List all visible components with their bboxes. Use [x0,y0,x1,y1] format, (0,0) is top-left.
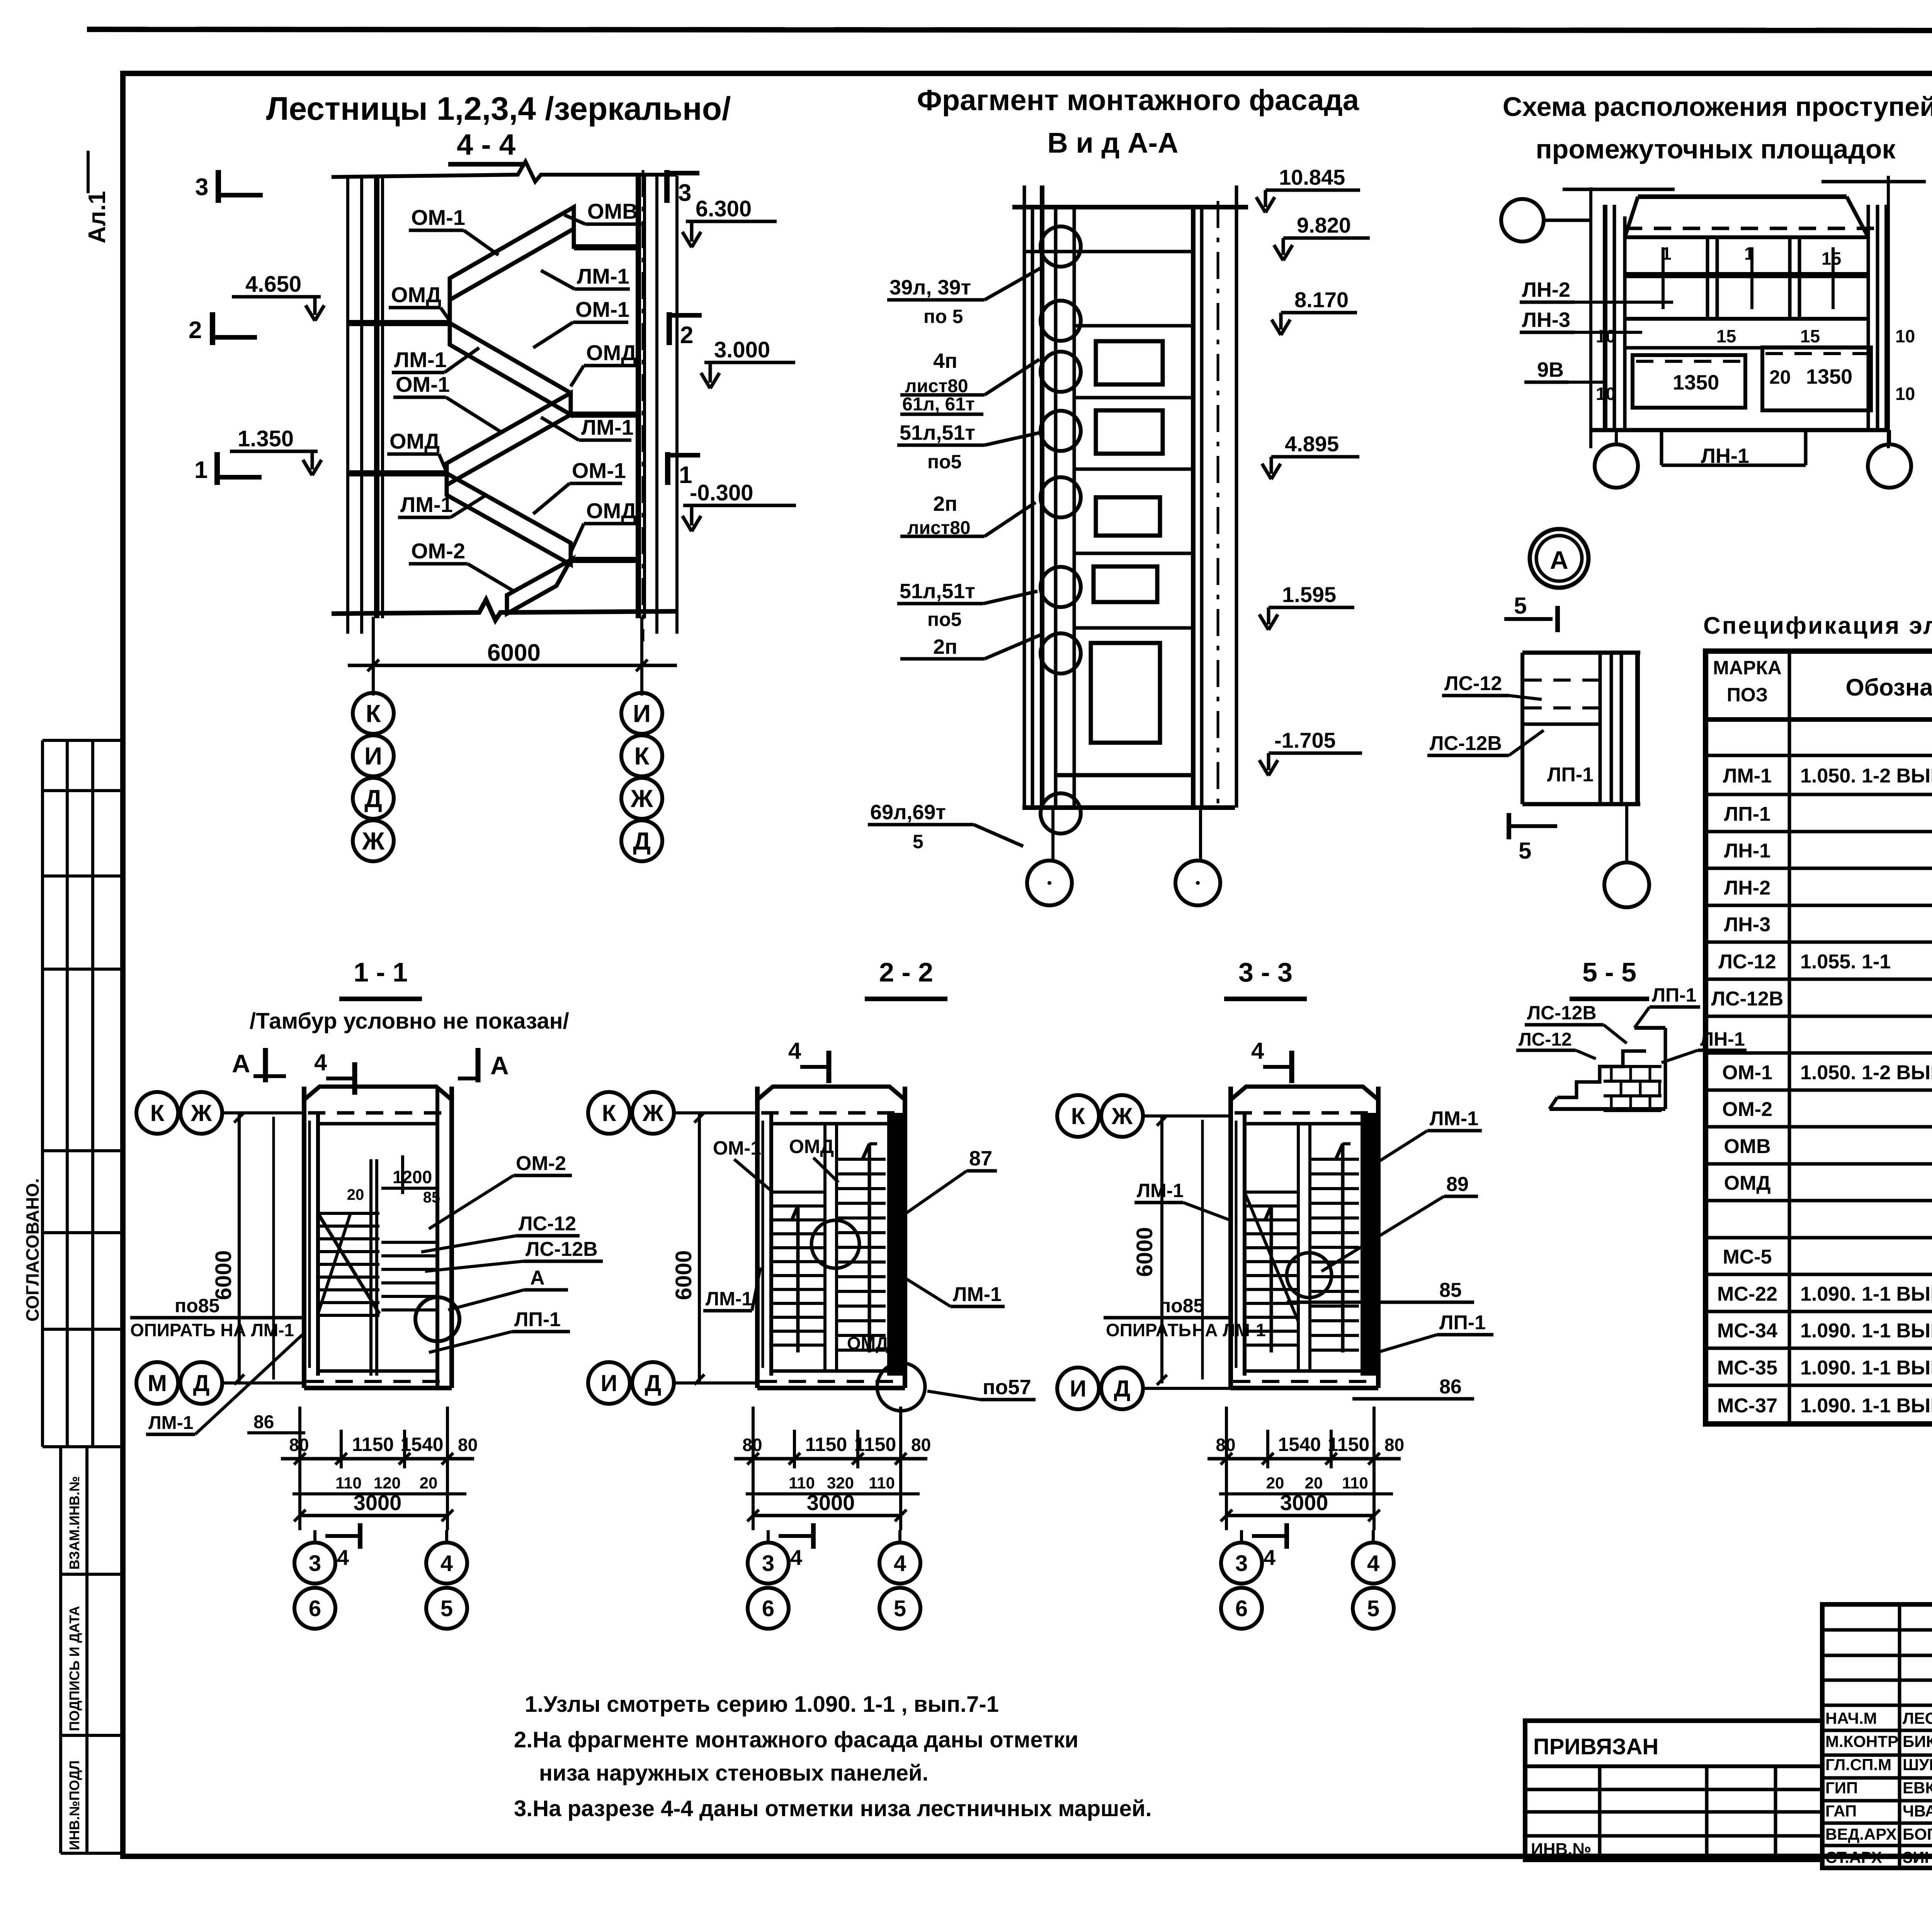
svg-text:20: 20 [1769,366,1791,388]
svg-text:ЛМ-1: ЛМ-1 [953,1283,1002,1306]
svg-text:3 - 3: 3 - 3 [1238,957,1293,987]
landing left C [348,470,447,476]
scheme grid top row [1625,235,1868,239]
svg-text:К: К [366,699,381,727]
svg-text:1150: 1150 [352,1434,394,1455]
svg-text:3.На разрезе 4-4 даны отметк: 3.На разрезе 4-4 даны отметки низа лестн… [514,1796,1152,1821]
svg-text:ШУРМУХИНА: ШУРМУХИНА [1903,1755,1932,1774]
svg-text:5: 5 [913,831,923,852]
svg-text:ЕВКО: ЕВКО [1903,1779,1932,1797]
svg-text:ИНВ.№ПОДЛ: ИНВ.№ПОДЛ [66,1761,82,1850]
svg-text:лист80: лист80 [907,518,971,538]
svg-text:Ж: Ж [190,1100,212,1126]
svg-text:Д: Д [364,784,382,812]
svg-text:ЛС-12В: ЛС-12В [1527,1002,1597,1024]
svg-text:110: 110 [869,1474,895,1492]
scheme axis dim verticals [1589,187,1592,448]
svg-text:Фрагмент монтажного фасада: Фрагмент монтажного фасада [917,84,1359,117]
svg-text:промежуточных площадок: промежуточных площадок [1536,134,1896,164]
svg-text:89: 89 [1446,1173,1469,1196]
plan walls [755,1087,760,1388]
svg-text:М.КОНТР: М.КОНТР [1825,1732,1898,1750]
svg-text:10: 10 [1596,326,1616,346]
svg-text:1.595: 1.595 [1282,582,1336,607]
cut mark 1 right [665,452,670,485]
svg-text:по5: по5 [927,609,962,630]
svg-text:МС-34: МС-34 [1717,1320,1777,1342]
top trim line [87,29,1932,31]
svg-text:3: 3 [1235,1551,1248,1576]
svg-text:110: 110 [335,1474,362,1492]
svg-text:4 - 4: 4 - 4 [457,128,515,161]
svg-text:СТ.АРХ: СТ.АРХ [1825,1848,1882,1866]
svg-text:ВЗАМ.ИНВ.№: ВЗАМ.ИНВ.№ [66,1476,82,1570]
plan stair content [771,1191,825,1194]
svg-text:1.090. 1-1 ВЫП.8-1: 1.090. 1-1 ВЫП.8-1 [1800,1283,1932,1305]
section axis bubbles bottom [313,1530,316,1543]
svg-text:85: 85 [423,1189,440,1206]
svg-text:ОМ-1: ОМ-1 [713,1137,761,1159]
svg-text:-0.300: -0.300 [690,480,753,505]
svg-text:80: 80 [289,1435,309,1455]
plan top slab [757,1087,905,1100]
svg-text:4: 4 [1251,1038,1264,1064]
svg-text:8.170: 8.170 [1294,287,1349,312]
cut mark 2 right [667,312,672,345]
svg-text:ОМД: ОМД [1724,1172,1771,1194]
svg-text:5: 5 [1514,593,1527,619]
facade hanging axis circles [1051,808,1054,862]
svg-text:2: 2 [680,322,693,349]
svg-text:9.820: 9.820 [1297,213,1351,237]
svg-text:ЛМ-1: ЛМ-1 [148,1413,193,1433]
svg-text:2.На фрагменте монтажного фас: 2.На фрагменте монтажного фасада даны от… [514,1727,1078,1752]
svg-text:ЛН-2: ЛН-2 [1724,877,1770,899]
svg-text:1.050. 1-2 ВЫП.1: 1.050. 1-2 ВЫП.1 [1800,765,1932,787]
svg-text:80: 80 [742,1435,762,1455]
svg-text:Лестницы 1,2,3,4 /зеркально/: Лестницы 1,2,3,4 /зеркально/ [266,90,731,127]
section 2-2 bottom-right node circle [877,1363,925,1411]
section 4-4 left wall [346,176,349,634]
table column lines [1788,651,1791,1424]
section 1-1 vertical dim 6000 [238,1113,241,1383]
detail 5-5 steps [1557,1051,1646,1097]
svg-text:ЛП-1: ЛП-1 [1724,803,1770,825]
svg-text:по57: по57 [983,1376,1031,1399]
svg-text:86: 86 [1439,1376,1462,1398]
svg-text:1: 1 [1662,243,1672,264]
axis bubbles 4-4 right [621,693,662,734]
svg-text:И: И [633,699,651,727]
facade circles column [1041,226,1081,267]
svg-text:1150: 1150 [854,1434,896,1455]
svg-text:320: 320 [827,1474,854,1492]
svg-text:ОМД: ОМД [391,282,441,307]
svg-text:ЛН-2: ЛН-2 [1522,278,1570,301]
svg-text:3000: 3000 [807,1490,855,1515]
detail hanging axis circle [1625,804,1628,862]
svg-text:ЛС-12: ЛС-12 [1718,951,1776,973]
svg-text:1200: 1200 [393,1167,432,1187]
svg-text:А: А [530,1267,545,1289]
flight fourth [447,473,571,565]
svg-text:Ж: Ж [642,1100,664,1126]
facade windows [1096,341,1163,384]
svg-text:4.895: 4.895 [1285,432,1339,456]
svg-text:ЛН-3: ЛН-3 [1522,308,1570,332]
svg-text:3000: 3000 [1280,1490,1328,1515]
svg-text:Д: Д [645,1370,662,1396]
svg-text:1: 1 [194,457,207,483]
svg-text:2 - 2: 2 - 2 [879,957,933,987]
svg-text:ЛП-1: ЛП-1 [514,1308,561,1331]
plan bottom slab [1231,1386,1378,1390]
table row lines [1706,754,1932,757]
svg-text:ОМД: ОМД [586,498,636,523]
svg-text:5: 5 [1367,1596,1379,1621]
flight third [447,393,571,485]
left stamp column grid upper [41,740,44,1447]
svg-text:10.845: 10.845 [1279,165,1345,189]
svg-text:-1.705: -1.705 [1274,728,1336,752]
svg-text:по5: по5 [927,451,962,473]
svg-text:ПРИВЯЗАН: ПРИВЯЗАН [1533,1734,1658,1759]
svg-text:20: 20 [347,1186,364,1203]
svg-text:4п: 4п [933,349,957,373]
svg-text:ЛС-12В: ЛС-12В [526,1238,598,1260]
detail plan LP-1 [1520,653,1524,804]
svg-text:87: 87 [969,1147,992,1170]
svg-text:1150: 1150 [805,1434,847,1455]
svg-text:ОМД: ОМД [586,340,636,365]
svg-text:1.Узлы смотреть серию 1.090: 1.Узлы смотреть серию 1.090. 1-1 , вып.7… [525,1692,999,1717]
svg-text:низа наружных стеновых пане: низа наружных стеновых панелей. [539,1761,929,1786]
svg-text:Ж: Ж [1111,1103,1133,1129]
svg-text:ГАП: ГАП [1825,1802,1857,1820]
svg-text:4: 4 [440,1551,453,1576]
flight OM-1 top [450,207,574,300]
svg-text:80: 80 [458,1435,478,1455]
svg-text:ПОДПИСЬ И ДАТА: ПОДПИСЬ И ДАТА [66,1606,82,1731]
svg-text:9В: 9В [1537,358,1564,381]
svg-text:10: 10 [1596,384,1616,404]
svg-text:ЛС-12: ЛС-12 [1444,672,1502,695]
facade bottom edge [1022,805,1235,810]
svg-text:4: 4 [788,1038,801,1064]
svg-text:В и д А-А: В и д А-А [1047,127,1178,159]
facade left band [1023,185,1026,808]
svg-text:ЛС-12В: ЛС-12В [1430,732,1502,755]
svg-text:ПОЗ: ПОЗ [1727,684,1768,706]
svg-text:А: А [1550,546,1568,574]
landing right D [571,557,638,563]
svg-text:6.300: 6.300 [696,196,752,221]
svg-text:ЛМ-1: ЛМ-1 [577,264,629,288]
section axis bubbles bottom [767,1530,770,1543]
svg-text:20: 20 [1266,1474,1284,1492]
svg-text:Ал.1: Ал.1 [84,191,111,243]
svg-text:ЛП-1: ЛП-1 [1652,984,1696,1006]
landing OMB top right [574,244,638,250]
svg-text:ОМД: ОМД [789,1136,834,1157]
svg-text:ЛН-1: ЛН-1 [1700,1028,1745,1050]
svg-text:Д: Д [633,827,651,855]
svg-text:4: 4 [790,1545,802,1570]
svg-text:К: К [602,1100,616,1126]
svg-text:лист80: лист80 [905,376,968,396]
svg-text:80: 80 [1384,1435,1404,1455]
svg-text:МС-5: МС-5 [1723,1246,1772,1268]
svg-text:69л,69т: 69л,69т [870,801,946,824]
svg-text:ЛЕОНОВ: ЛЕОНОВ [1903,1709,1932,1727]
svg-text:Д: Д [1114,1376,1131,1402]
svg-text:по85: по85 [1159,1295,1204,1317]
svg-text:ОМ-1: ОМ-1 [1722,1061,1772,1084]
svg-text:1.090. 1-1 ВЫП.7-1: 1.090. 1-1 ВЫП.7-1 [1800,1320,1932,1342]
scheme 1 axis circle left [1501,199,1544,242]
svg-text:10: 10 [1895,326,1915,346]
scheme 1 bottom axis circles [1615,430,1618,444]
scheme walls [1603,205,1607,430]
section 3-3 vertical dim 6000 [1160,1116,1163,1383]
detail 5 mark bottom [1509,824,1557,828]
section dims below plan [298,1407,301,1530]
svg-text:ЛМ-1: ЛМ-1 [394,347,447,372]
plan top slab [304,1087,452,1100]
svg-text:6: 6 [1235,1596,1248,1621]
facade floor lines [1074,250,1193,253]
svg-text:по 5: по 5 [923,306,963,327]
svg-text:85: 85 [1439,1279,1462,1301]
svg-text:ЛМ-1: ЛМ-1 [706,1288,752,1310]
landing right B [571,412,638,418]
svg-text:ОМ-2: ОМ-2 [411,539,465,563]
svg-text:20: 20 [420,1474,438,1492]
svg-text:МС-22: МС-22 [1717,1283,1777,1305]
cut mark 3 right [664,170,670,203]
svg-text:3: 3 [309,1551,321,1576]
scheme top band [1638,194,1847,199]
svg-text:МАРКА: МАРКА [1713,657,1782,679]
svg-text:/Тамбур условно не показан/: /Тамбур условно не показан/ [250,1009,569,1034]
svg-text:ОПИРАТЬ: ОПИРАТЬ [1106,1320,1191,1340]
svg-text:ЛС-12: ЛС-12 [1519,1029,1572,1050]
svg-text:ЛС-12: ЛС-12 [519,1213,576,1235]
svg-text:4: 4 [337,1545,349,1570]
svg-text:4: 4 [1367,1551,1379,1576]
svg-text:ЛН-1: ЛН-1 [1701,444,1749,468]
scheme bottom bracket LN-1 [1660,430,1663,465]
svg-text:ОМД: ОМД [389,429,440,453]
svg-text:1540: 1540 [400,1434,443,1455]
section dims below plan [752,1407,755,1530]
svg-text:ЧВАЛУН: ЧВАЛУН [1903,1802,1932,1820]
svg-text:3: 3 [195,174,208,201]
svg-text:ОМ-1: ОМ-1 [572,458,626,483]
plan walls [1228,1087,1233,1388]
svg-text:15: 15 [1716,326,1736,346]
scheme bottom line [1591,428,1888,432]
svg-text:БОГДАНОВА: БОГДАНОВА [1903,1825,1932,1843]
svg-text:6000: 6000 [1132,1227,1157,1277]
svg-text:61л, 61т: 61л, 61т [902,394,975,415]
svg-text:ЛМ-1: ЛМ-1 [400,492,453,517]
svg-text:4: 4 [894,1551,906,1576]
svg-text:110: 110 [1342,1474,1368,1492]
facade top edge [1012,205,1248,209]
svg-text:Схема расположения проступей: Схема расположения проступей [1503,92,1932,122]
svg-text:НАЧ.М: НАЧ.М [1825,1709,1877,1727]
svg-text:ИНВ.№: ИНВ.№ [1531,1840,1591,1859]
svg-text:1150: 1150 [1328,1434,1369,1455]
svg-text:1.090. 1-1 ВЫП.7-1: 1.090. 1-1 ВЫП.7-1 [1800,1395,1932,1417]
plan walls [302,1087,306,1388]
svg-text:ЛМ-1: ЛМ-1 [1723,765,1772,787]
svg-text:15: 15 [1800,326,1820,346]
landing left A [348,320,450,326]
svg-text:ГЛ.СП.М: ГЛ.СП.М [1825,1755,1891,1774]
svg-text:ЛН-3: ЛН-3 [1724,913,1770,936]
svg-text:И: И [600,1370,617,1396]
svg-text:ВЕД.АРХ: ВЕД.АРХ [1825,1825,1897,1843]
svg-text:3.000: 3.000 [714,337,770,362]
svg-text:6: 6 [762,1596,774,1621]
svg-text:6: 6 [309,1596,321,1621]
svg-text:ОПИРАТЬ НА ЛМ-1: ОПИРАТЬ НА ЛМ-1 [130,1320,294,1340]
privyazan box [1525,1721,1822,1860]
svg-text:1.350: 1.350 [238,426,294,451]
svg-text:МС-35: МС-35 [1717,1357,1777,1379]
svg-text:5: 5 [894,1596,906,1621]
svg-text:К: К [634,742,650,770]
left stamp column lower [59,1447,62,1853]
svg-text:6000: 6000 [671,1250,696,1300]
plan bottom slab [757,1386,905,1390]
svg-text:ОМВ: ОМВ [1724,1135,1770,1158]
svg-text:МС-37: МС-37 [1717,1395,1777,1417]
svg-text:5: 5 [1519,838,1531,864]
svg-text:3: 3 [678,180,691,206]
section axis bubbles bottom [1240,1530,1243,1543]
svg-text:ЛМ-1: ЛМ-1 [1430,1107,1478,1130]
section cut mark 4 bottom [779,1534,813,1538]
svg-text:ОМД: ОМД [847,1333,888,1353]
svg-text:1350: 1350 [1806,365,1852,388]
svg-text:ОМ-2: ОМ-2 [516,1152,566,1175]
svg-text:51л,51т: 51л,51т [900,421,975,444]
svg-text:3000: 3000 [354,1490,402,1515]
plan stair content [1245,1191,1298,1194]
svg-text:СОГЛАСОВАНО.: СОГЛАСОВАНО. [22,1178,43,1322]
svg-text:1540: 1540 [1278,1434,1321,1455]
svg-text:ОМ-2: ОМ-2 [1722,1098,1772,1121]
svg-text:4: 4 [1264,1545,1276,1570]
detail 5-5 brick hatch [1604,1065,1662,1068]
svg-text:ОМ-1: ОМ-1 [396,372,450,396]
axis bubbles 4-4 left [353,693,394,734]
svg-text:6000: 6000 [487,640,541,666]
svg-text:86: 86 [253,1412,274,1432]
svg-text:ГИП: ГИП [1825,1779,1858,1797]
svg-text:А: А [232,1049,250,1078]
svg-text:4.650: 4.650 [245,272,301,297]
svg-text:39л, 39т: 39л, 39т [889,276,971,299]
svg-text:10: 10 [1895,384,1915,404]
svg-text:К: К [150,1100,165,1126]
svg-text:5: 5 [440,1596,453,1621]
svg-text:120: 120 [374,1474,401,1492]
facade right band [1191,207,1196,808]
svg-text:80: 80 [911,1435,931,1455]
svg-text:3: 3 [762,1551,774,1576]
signature grid [1822,1604,1932,1868]
svg-text:Спецификация элементов к схе: Спецификация элементов к схемам располож… [1703,612,1932,639]
svg-text:2п: 2п [933,635,957,658]
table outer border [1706,651,1932,1424]
svg-text:И: И [1070,1376,1086,1402]
section 1-1 axis bubbles left [136,1092,178,1134]
section 4-4 right wall [636,176,641,618]
svg-text:1.050. 1-2 ВЫП.2: 1.050. 1-2 ВЫП.2 [1800,1061,1932,1084]
plan top slab [1231,1087,1378,1100]
svg-text:ОМ-1: ОМ-1 [575,297,629,321]
plan stair content [318,1212,379,1215]
svg-text:ЗИНОВКИНА: ЗИНОВКИНА [1903,1848,1932,1866]
section 4-4 bottom edge [332,600,677,620]
scheme second row line [1625,346,1868,350]
svg-text:2п: 2п [933,492,957,515]
svg-text:Ж: Ж [630,784,653,812]
section cut mark 4 bottom [325,1534,360,1538]
svg-text:15: 15 [1821,248,1841,269]
svg-text:5 - 5: 5 - 5 [1582,957,1636,987]
svg-text:ЛС-12В: ЛС-12В [1711,988,1784,1010]
section 3-3 axis bubbles [1057,1095,1099,1137]
section 2-2 vertical dim 6000 [698,1113,701,1383]
svg-text:И: И [364,742,382,770]
svg-text:51л,51т: 51л,51т [900,580,975,603]
node A circle [1530,529,1588,588]
svg-text:БИКБАЕВА: БИКБАЕВА [1903,1732,1932,1750]
svg-text:6000: 6000 [211,1250,236,1300]
svg-text:1350: 1350 [1673,371,1719,394]
svg-text:ЛП-1: ЛП-1 [1439,1311,1486,1334]
section 4-4 top edge [332,162,677,182]
svg-text:110: 110 [789,1474,815,1492]
facade inner left line [1073,207,1076,808]
svg-text:1.055. 1-1: 1.055. 1-1 [1800,951,1891,973]
flight OM-1 second [450,323,571,415]
scheme inner ticks [1662,247,1665,309]
svg-text:Обозначение: Обозначение [1845,674,1932,701]
scheme lower-left box [1633,355,1745,408]
section 2-2 axis bubbles [588,1092,630,1134]
svg-text:1: 1 [1744,243,1754,264]
svg-text:2: 2 [189,317,202,344]
svg-text:ОМВ: ОМВ [587,199,638,223]
svg-text:ЛН-1: ЛН-1 [1724,840,1770,862]
svg-text:Ж: Ж [362,827,385,855]
svg-text:20: 20 [1305,1474,1323,1492]
svg-text:4: 4 [314,1050,327,1075]
svg-text:80: 80 [1216,1435,1235,1455]
svg-text:ЛМ-1: ЛМ-1 [1137,1180,1184,1201]
plan bottom slab [304,1386,452,1390]
svg-text:ОМ-1: ОМ-1 [411,205,465,230]
svg-text:А: А [490,1051,509,1080]
svg-text:Д: Д [193,1370,210,1396]
svg-text:1.090. 1-1 ВЫП.8-1: 1.090. 1-1 ВЫП.8-1 [1800,1357,1932,1379]
